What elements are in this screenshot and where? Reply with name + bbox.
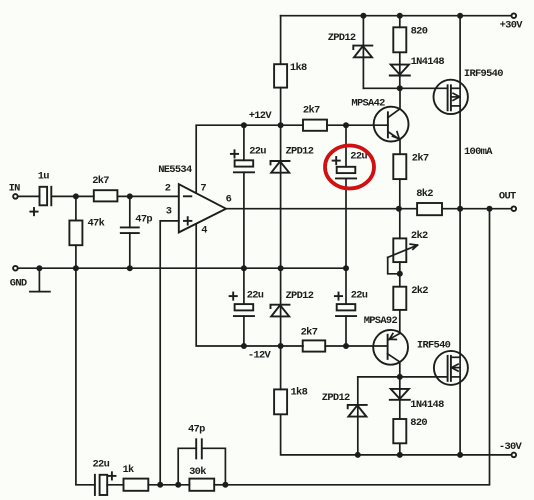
svg-text:100mA: 100mA [464,146,493,158]
svg-text:22u: 22u [247,290,264,302]
svg-text:-30V: -30V [499,441,523,453]
node dot 22u/gnd right [343,265,349,271]
wire pin4 to -12V rail corner [196,224,303,346]
svg-text:820: 820 [411,26,428,38]
svg-text:820: 820 [410,417,427,429]
svg-text:47k: 47k [88,217,105,229]
svg-text:30k: 30k [189,466,206,478]
node dot 22u/gnd left [241,265,247,271]
svg-text:1N4148: 1N4148 [411,56,445,68]
wire zener column to gate node (y=88.3) [363,87,447,89]
wire -12V to 1k8 [280,346,282,389]
svg-text:2k7: 2k7 [303,104,320,116]
wire rail to 820 [399,16,401,28]
node dot rail/820 [397,13,403,19]
zener diode ZPD12 (lower middle, -12V) [271,268,314,346]
svg-text:NE5534: NE5534 [158,164,192,176]
svg-text:22u: 22u [249,146,266,158]
capacitor 47p (input) [121,196,153,268]
node dot -12V/22u right [343,343,349,349]
node dot +12V/ZPD12 [278,122,284,128]
capacitor 22u (below gnd right) [335,268,368,346]
svg-text:IN: IN [9,183,21,195]
resistor 8k2 [416,188,442,215]
mosfet U2 IRF9540 [434,68,504,114]
trimmer 2k2 [388,209,428,287]
svg-text:2k2: 2k2 [411,285,428,297]
svg-text:2k2: 2k2 [411,230,428,242]
wire -30V rail [281,414,512,455]
zener diode ZPD12 (upper middle, +12V) [271,125,314,268]
svg-text:1u: 1u [38,171,50,183]
capacitor 22u (red circled, MPSA42 base) [333,125,368,268]
svg-text:6: 6 [226,193,232,205]
svg-text:ZPD12: ZPD12 [286,290,314,302]
svg-text:2k7: 2k7 [92,175,109,187]
svg-text:7: 7 [200,182,206,194]
wire 820 to -30V rail [399,443,401,455]
wire 2k7 to output [399,179,401,209]
node dot 47p loop left [175,482,181,488]
wire mosfet column x=460 bottom [459,209,461,455]
capacitor 22u (below gnd left) [230,268,264,346]
svg-text:MPSA92: MPSA92 [364,315,398,327]
wire left main column x=280.6 (top rail corner down to 1k8) [280,16,282,64]
resistor 820 (bottom) [393,417,427,443]
capacitor 47p (feedback bypass) [178,424,225,485]
wire gnd leg down from gnd rail [76,268,95,485]
svg-text:+30V: +30V [500,19,524,31]
svg-text:2k7: 2k7 [301,327,318,339]
wire pin3 stub [160,221,179,485]
resistor 47k [69,196,104,268]
terminal +30V [500,13,524,31]
node dot input/47k [73,193,79,199]
terminal OUT [499,191,516,212]
wire drain column x=460 top [459,16,461,209]
svg-text:ZPD12: ZPD12 [322,392,350,404]
wire +30V top rail [281,15,512,17]
terminal GND [10,266,27,290]
op-amp U1 NE5534 [158,164,231,237]
resistor 2k7 (+12V rail to MPSA42 base) [303,104,327,130]
resistor 2k2 (fixed) [393,285,428,310]
zener diode ZPD12 (top outer) [328,16,373,89]
wire feedback from output down and along bottom [225,209,489,485]
resistor 2k7 (input) [92,175,117,201]
svg-text:OUT: OUT [499,191,516,203]
svg-text:47p: 47p [188,424,205,436]
svg-text:22u: 22u [351,290,368,302]
svg-text:ZPD12: ZPD12 [328,32,356,44]
wire output line [226,208,417,210]
node dot lower gate [397,374,403,380]
svg-text:3: 3 [166,206,172,218]
transistor Q2 MPSA92 [364,315,408,377]
svg-text:1N4148: 1N4148 [410,399,444,411]
node dot -30V/zener [355,452,361,458]
svg-text:1k: 1k [123,464,135,476]
transistor Q1 MPSA42 [351,88,408,154]
node dot output/feedback [487,206,493,212]
node dot rail/mosfet [457,13,463,19]
svg-text:2: 2 [165,182,171,194]
svg-text:-12V: -12V [248,350,272,362]
node dot -12V/22u [241,343,247,349]
svg-text:GND: GND [10,278,27,290]
wire 1k to pin3 node [148,484,189,486]
wire 1k8 to +12V rail [280,88,282,126]
resistor 1k8 (bottom) [274,387,308,415]
capacitor 22u (op-amp supply) [231,125,266,268]
svg-text:1k8: 1k8 [291,387,308,399]
resistor 2k7 (-12V rail to MPSA92 base) [301,327,326,352]
svg-text:47p: 47p [135,213,152,225]
diode 1N4148 (bottom) [390,377,444,419]
svg-text:2k7: 2k7 [412,153,429,165]
wire 2k2 to MPSA92 emitter [399,310,401,334]
resistor 1k8 (top) [274,62,307,87]
wire 30k to right [214,484,225,486]
wire input node to 2k7 and to pin2 [76,195,94,197]
node dot 2k7/47p [127,193,133,199]
capacitor 1u (input) [18,171,76,216]
node dot output/2k7e [396,206,402,212]
svg-text:+12V: +12V [249,110,273,122]
wire GND rail [18,267,346,269]
svg-text:MPSA42: MPSA42 [351,98,385,110]
ground symbol [30,268,50,291]
node dot zener/gnd [278,265,284,271]
node dot gate/diode [397,85,403,91]
node dot -30V/820 [397,452,403,458]
node dot output/mosfets [457,206,463,212]
terminal IN [9,183,21,199]
terminal -30V [499,441,523,457]
resistor 30k (feedback) [189,466,214,491]
node dot 47p/gnd [127,265,133,271]
capacitor 22u (feedback, bottom left) [93,459,124,495]
node dot -30V/mosfet [457,452,463,458]
resistor 1k (feedback) [123,464,149,491]
highlight red ellipse [325,146,374,189]
resistor 2k7 (MPSA42 emitter) [393,153,429,180]
svg-text:4: 4 [201,224,207,236]
wire pin7 to +12V rail corner [196,125,303,193]
node dot -12V/zener [278,343,284,349]
wire 8k2 to OUT [442,208,511,210]
svg-text:ZPD12: ZPD12 [286,146,314,158]
resistor 820 (top) [393,26,427,53]
svg-text:22u: 22u [93,459,110,471]
node dot 47p loop right [222,482,228,488]
mosfet U3 IRF540 [417,339,468,385]
svg-text:IRF9540: IRF9540 [464,68,503,80]
wire 2k7 to base MPSA92 [325,345,387,347]
svg-text:1k8: 1k8 [290,62,307,74]
node dot 47k/gnd [73,265,79,271]
svg-text:8k2: 8k2 [416,188,433,200]
wire lower gate line y=376.9 [358,376,448,378]
diode 1N4148 (top) [390,52,445,88]
node dot gnd stub [36,265,42,271]
node dot +12V/22u [241,122,247,128]
node dot pin3/feedback [157,482,163,488]
wire zener column corner down [357,377,359,455]
wire 2k7 to base MPSA42 [327,124,388,126]
node dot base/22u [343,122,349,128]
node dot top rail / zener [360,13,366,19]
svg-text:IRF540: IRF540 [417,339,451,351]
zener diode ZPD12 (bottom outer) [322,392,367,417]
